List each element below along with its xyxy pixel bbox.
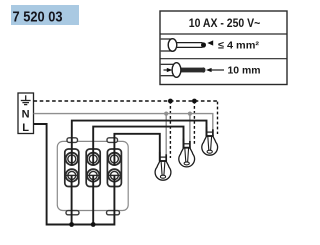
svg-text:≤ 4 mm²: ≤ 4 mm² <box>218 39 260 51</box>
svg-text:10 mm: 10 mm <box>228 64 261 76</box>
svg-text:10 AX - 250 V~: 10 AX - 250 V~ <box>189 16 261 30</box>
svg-text:L: L <box>22 122 29 134</box>
svg-text:7 520 03: 7 520 03 <box>13 8 63 25</box>
svg-text:N: N <box>22 109 30 121</box>
